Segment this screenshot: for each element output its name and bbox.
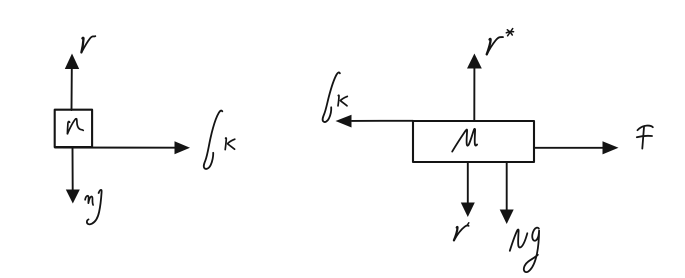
label m (inside left box): [67, 119, 83, 134]
arrow f_k right (left diagram): [55, 141, 190, 154]
label N (left top): [81, 36, 95, 52]
arrow mg down (left): [66, 148, 80, 204]
label Mg (right bottom): [510, 228, 539, 272]
arrow N* up (right diagram): [467, 54, 482, 122]
label F: [637, 126, 653, 149]
label f_k (left diagram): [204, 111, 235, 169]
arrow F right (right diagram): [534, 141, 619, 154]
label N (right bottom): [454, 223, 469, 241]
arrow N down (right diagram): [461, 162, 475, 217]
label f_k (right diagram): [323, 72, 348, 122]
label mg (left bottom): [85, 190, 102, 224]
label N* (right top): [487, 29, 514, 55]
label M (inside right rectangle): [452, 129, 477, 152]
arrow f_k left (right diagram): [336, 115, 414, 128]
block M (right free-body rectangle): [413, 121, 534, 162]
block m (left free-body box): [55, 110, 92, 147]
arrow N up (left): [65, 54, 79, 111]
arrow Mg down (right diagram): [500, 162, 514, 224]
